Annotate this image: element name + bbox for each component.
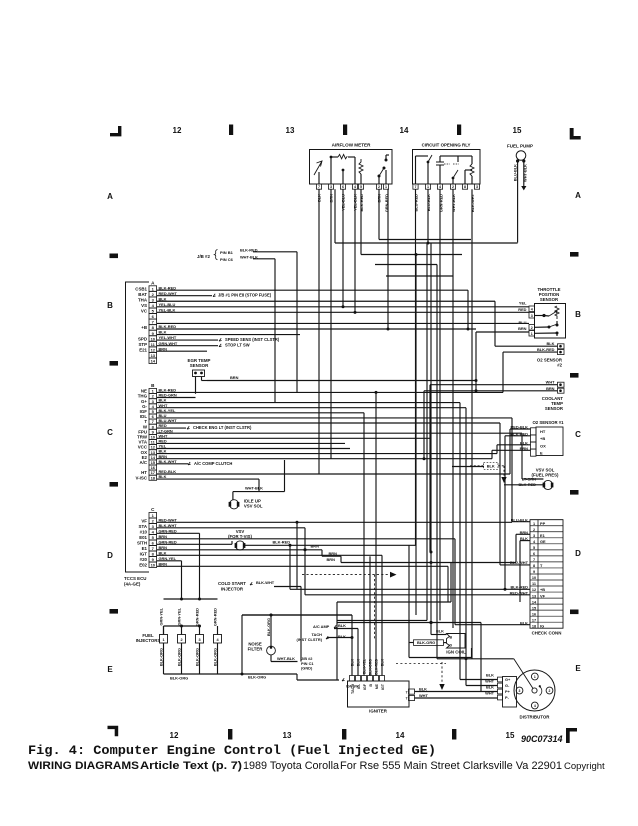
- circuit opening relay pin 3: [474, 184, 479, 189]
- svg-text:BRN: BRN: [518, 326, 527, 331]
- svg-text:BLU-RED: BLU-RED: [414, 194, 419, 212]
- svg-text:A/C COMP CLUTCH: A/C COMP CLUTCH: [194, 461, 232, 466]
- wire: [157, 412, 364, 414]
- ECU pin C3 (STA): [149, 524, 157, 530]
- distributor pin G+: [498, 677, 503, 682]
- throttle position sensor potentiometer: [555, 306, 559, 319]
- svg-text:BLU: BLU: [519, 320, 527, 325]
- check connector pin 17: [530, 615, 563, 617]
- check connector pin 7: [530, 555, 563, 557]
- svg-text:5: 5: [152, 535, 155, 540]
- wire: [497, 444, 531, 446]
- svg-text:A/C AMP: A/C AMP: [313, 624, 330, 629]
- ECU pin A10 (SPD): [149, 336, 157, 342]
- wire: [378, 189, 380, 239]
- airflow meter pin 4: [352, 184, 357, 189]
- distributor terminal 1: [531, 673, 538, 680]
- svg-text:15: 15: [513, 126, 522, 135]
- svg-text:18: 18: [532, 624, 536, 628]
- wire: [330, 189, 332, 459]
- wire: [157, 560, 182, 562]
- VSV for T-VIS solenoid: [235, 541, 244, 550]
- svg-text:CIRCUIT OPENING RLY: CIRCUIT OPENING RLY: [422, 143, 471, 148]
- check connector pin 3 (E1): [530, 531, 563, 533]
- wire: [157, 527, 305, 529]
- svg-text:1: 1: [385, 185, 387, 189]
- svg-text:4: 4: [534, 704, 536, 708]
- distributor terminal 4: [531, 702, 538, 709]
- wire: [232, 492, 234, 500]
- wire: [318, 189, 320, 474]
- svg-text:A/C: A/C: [139, 460, 147, 465]
- wire: [157, 345, 218, 347]
- wire: [454, 539, 456, 625]
- igniter pin 3 (IGF): [362, 676, 367, 682]
- svg-text:BLK-RED: BLK-RED: [359, 194, 364, 212]
- wire: [447, 566, 449, 602]
- wire: [157, 391, 503, 393]
- svg-text:16: 16: [532, 612, 536, 616]
- svg-text:4: 4: [439, 185, 441, 189]
- wire: [322, 555, 341, 557]
- O2 sensor #2 pins: [558, 344, 565, 349]
- check connector box: [530, 520, 563, 629]
- svg-text:+B: +B: [540, 436, 545, 441]
- svg-text:P+: P+: [505, 689, 511, 694]
- svg-text:12: 12: [170, 731, 179, 740]
- wire: [253, 251, 297, 253]
- svg-text:A: A: [151, 280, 155, 285]
- svg-text:BLK-RED: BLK-RED: [159, 324, 177, 329]
- wire: [511, 418, 513, 522]
- wire: [157, 417, 512, 419]
- wire: [334, 189, 336, 243]
- wire: [327, 637, 352, 639]
- wire: [452, 466, 484, 468]
- check connector pin 4 (GE): [530, 537, 563, 539]
- wire injector 3 top: [199, 626, 201, 635]
- tick mark top: [457, 125, 461, 136]
- wire injector 3 bottom: [199, 643, 201, 674]
- svg-text:BLK-ORG: BLK-ORG: [417, 640, 435, 645]
- svg-text:SENSOR: SENSOR: [540, 297, 559, 302]
- svg-text:BAT: BAT: [138, 292, 147, 297]
- wire: [334, 628, 358, 630]
- svg-text:GRN-RED: GRN-RED: [159, 539, 177, 544]
- throttle position sensor pin 2: [529, 325, 535, 331]
- svg-text:5: 5: [533, 546, 535, 550]
- ECU pin B9 (FPU): [149, 429, 157, 434]
- svg-text:SENSOR: SENSOR: [190, 363, 209, 368]
- svg-text:WHT: WHT: [546, 380, 555, 385]
- ECU pin A14: [149, 358, 157, 364]
- distributor rotor arm: [514, 659, 533, 689]
- svg-text:10: 10: [151, 563, 156, 568]
- svg-text:11: 11: [151, 342, 156, 347]
- airflow meter pin 5: [358, 184, 363, 189]
- igniter pin 2 (IG-): [356, 676, 361, 682]
- dashed line under coil: [396, 663, 446, 665]
- svg-text:4: 4: [152, 530, 155, 535]
- svg-text:1: 1: [162, 638, 164, 642]
- wire: [502, 352, 504, 392]
- ECU pin A4 (VS): [149, 302, 157, 308]
- svg-text:BLU-BLK: BLU-BLK: [426, 194, 431, 211]
- svg-text:7: 7: [152, 546, 155, 551]
- wire noise filter feed: [242, 614, 271, 616]
- svg-text:B: B: [151, 383, 155, 388]
- wire: [430, 384, 558, 386]
- svg-text:BLK: BLK: [486, 673, 494, 678]
- wire: [245, 544, 416, 546]
- svg-text:+B: +B: [540, 587, 545, 592]
- wire injector 2 top: [181, 626, 183, 635]
- distributor rotor center: [532, 688, 537, 693]
- svg-text:12: 12: [151, 347, 156, 352]
- wire: [274, 586, 301, 588]
- wire: [439, 189, 441, 620]
- wire: [467, 290, 469, 329]
- wire: [157, 554, 382, 556]
- airflow meter internal wiring: [330, 157, 332, 184]
- airflow meter pin 2: [376, 184, 381, 189]
- svg-text:INJECTOR: INJECTOR: [221, 587, 244, 592]
- wire: [290, 588, 530, 590]
- svg-text:VF: VF: [540, 593, 546, 598]
- svg-text:4: 4: [354, 185, 356, 189]
- ECU pin A7: [149, 319, 157, 325]
- ECU pin B10 (TRW): [149, 434, 157, 439]
- svg-text:#2: #2: [557, 363, 562, 368]
- wire: [157, 448, 350, 450]
- check connector pin 5: [530, 543, 563, 545]
- svg-text:BLK-RED: BLK-RED: [537, 347, 555, 352]
- wire: [430, 243, 432, 623]
- circuit opening relay box: [413, 150, 481, 185]
- svg-text:8: 8: [533, 564, 535, 568]
- fuel injector 4: [214, 635, 222, 644]
- wire: [336, 602, 338, 680]
- ECU pin B7 (T): [149, 419, 157, 424]
- check connector pin 2: [530, 525, 563, 527]
- A/C compressor clutch note: [188, 462, 191, 465]
- svg-text:2: 2: [533, 528, 535, 532]
- svg-text:3: 3: [533, 534, 535, 538]
- wire: [321, 550, 323, 556]
- svg-text:RED-WHT: RED-WHT: [159, 291, 178, 296]
- igniter pin 4 (B): [368, 676, 373, 682]
- svg-text:12: 12: [173, 126, 182, 135]
- svg-text:8: 8: [152, 552, 155, 557]
- wire: [351, 615, 353, 676]
- ECU pin C7 (E1): [149, 546, 157, 552]
- check engine light note: [187, 426, 190, 429]
- wire: [436, 265, 438, 659]
- svg-text:CHECK ENG LT (INST CLSTR): CHECK ENG LT (INST CLSTR): [193, 425, 252, 430]
- svg-text:PIN C6: PIN C6: [220, 257, 234, 262]
- ECU pin A9: [149, 330, 157, 336]
- svg-text:12: 12: [532, 588, 536, 592]
- wire: [157, 322, 529, 324]
- wire: [157, 407, 466, 409]
- distributor terminal 3: [516, 687, 523, 694]
- circuit opening relay pin 7: [413, 184, 418, 189]
- svg-text:15: 15: [506, 731, 515, 740]
- check connector pin 9: [530, 567, 563, 569]
- check connector pin 8 (T): [530, 561, 563, 563]
- wire: [427, 189, 429, 243]
- stop light switch note: [219, 344, 222, 347]
- idle up VSV solenoid: [229, 500, 238, 509]
- wire: [157, 565, 448, 567]
- wire: [426, 243, 428, 620]
- wire: [494, 301, 496, 346]
- svg-text:BLK: BLK: [159, 296, 167, 301]
- wire: [157, 521, 512, 523]
- airflow meter internal vane resistor: [314, 161, 322, 175]
- check connector pin 12 (+B): [530, 585, 563, 587]
- wire label BLK-ORG boxed: [414, 640, 444, 646]
- svg-text:8: 8: [464, 185, 466, 189]
- svg-text:YEL-BLK: YEL-BLK: [159, 307, 176, 312]
- svg-text:DISTRIBUTOR: DISTRIBUTOR: [520, 715, 551, 720]
- svg-text:13: 13: [286, 126, 295, 135]
- svg-text:FUEL PUMP: FUEL PUMP: [507, 144, 533, 149]
- wire: [452, 189, 454, 628]
- ECU pin B16: [149, 465, 157, 470]
- svg-text:17: 17: [532, 618, 536, 622]
- throttle position sensor pin 4: [529, 306, 535, 312]
- circuit opening relay pin 8: [462, 184, 467, 189]
- O2 sensor #1 pin 3 (OX): [531, 442, 537, 449]
- ECU pin C6 (S/TH): [149, 540, 157, 546]
- igniter pin 1 (TACH): [350, 676, 355, 682]
- svg-text:STP: STP: [138, 342, 147, 347]
- svg-text:BRN: BRN: [230, 375, 239, 380]
- tick mark top: [229, 125, 233, 136]
- svg-text:3: 3: [531, 314, 533, 318]
- wire: [284, 460, 286, 492]
- svg-text:BLK: BLK: [338, 634, 346, 639]
- wire: [519, 541, 521, 602]
- wire: [480, 623, 482, 692]
- svg-text:BLK: BLK: [159, 474, 167, 479]
- wire: [357, 629, 359, 676]
- svg-text:9: 9: [152, 557, 155, 562]
- ignition coil box: [447, 634, 466, 649]
- ECU pin C4 (#10): [149, 529, 157, 535]
- svg-text:13: 13: [283, 731, 292, 740]
- ECU pin A12 (E21): [149, 347, 157, 353]
- wire: [512, 521, 530, 523]
- svg-text:4: 4: [531, 307, 533, 311]
- wire: [164, 598, 218, 600]
- wire: [157, 397, 196, 399]
- svg-text:TCCS ECU: TCCS ECU: [124, 576, 146, 581]
- wire: [360, 189, 362, 254]
- svg-text:C: C: [575, 430, 581, 439]
- ECU pin A8 (+B): [149, 325, 157, 331]
- svg-text:90C07314: 90C07314: [521, 734, 563, 744]
- noise filter: [267, 646, 276, 655]
- ECU pin C8 (IGT): [149, 551, 157, 557]
- circuit opening relay pin 2: [450, 184, 455, 189]
- svg-text:1: 1: [427, 185, 429, 189]
- svg-text:YEL: YEL: [519, 301, 527, 306]
- corner mark bottom-right: [566, 728, 577, 743]
- wire: [305, 594, 530, 596]
- svg-text:BLK-ORG: BLK-ORG: [158, 648, 163, 666]
- wire: [459, 403, 461, 680]
- corner mark top-right: [570, 128, 581, 140]
- wire: [510, 428, 531, 430]
- svg-text:THA: THA: [138, 297, 148, 302]
- svg-text:(GND): (GND): [301, 666, 313, 671]
- wire: [379, 239, 471, 241]
- fuel injector 1: [160, 635, 168, 644]
- wire: [342, 189, 344, 307]
- tick mark right: [570, 373, 579, 378]
- svg-text:3: 3: [152, 524, 155, 529]
- svg-text:GRN-RED: GRN-RED: [194, 608, 199, 626]
- wire: [466, 685, 498, 687]
- wire: [363, 413, 365, 676]
- wire: [341, 562, 516, 564]
- distributor pin P-: [498, 695, 503, 700]
- svg-text:18: 18: [151, 475, 156, 480]
- distributor connector: [503, 677, 517, 708]
- svg-text:BLK-WHT: BLK-WHT: [159, 523, 178, 528]
- tick mark left: [110, 361, 119, 366]
- wire: [157, 532, 200, 534]
- distributor terminal 2: [546, 687, 553, 694]
- ECU pin B8 (W): [149, 424, 157, 429]
- svg-text:T: T: [540, 563, 543, 568]
- svg-text:14: 14: [532, 600, 537, 604]
- svg-text:BRN: BRN: [159, 561, 168, 566]
- wire: [500, 564, 530, 566]
- svg-text:SPD: SPD: [138, 336, 147, 341]
- svg-text:7: 7: [533, 558, 535, 562]
- ground fuel pump: [521, 186, 526, 190]
- svg-text:BLK: BLK: [351, 659, 355, 667]
- coolant temp sensor pins: [558, 382, 565, 387]
- igniter box: [348, 681, 410, 707]
- tick mark right: [570, 610, 579, 615]
- svg-text:2: 2: [549, 689, 551, 693]
- wire: [465, 408, 467, 686]
- svg-text:BLK-ORG: BLK-ORG: [369, 659, 373, 676]
- airflow meter box: [310, 150, 393, 185]
- throttle position sensor box: [535, 304, 566, 339]
- wire: [274, 259, 276, 403]
- wire fuel pump WHT-BLK: [523, 161, 525, 186]
- airflow meter pin 6: [340, 184, 345, 189]
- svg-text:(INST CLSTR): (INST CLSTR): [296, 637, 322, 642]
- svg-text:1: 1: [531, 332, 533, 336]
- wire: [296, 522, 298, 589]
- svg-text:SENSOR: SENSOR: [545, 406, 564, 411]
- tick mark bottom: [342, 729, 346, 740]
- svg-text:7: 7: [318, 185, 320, 189]
- wire: [207, 380, 476, 382]
- check connector pin 15: [530, 603, 563, 605]
- svg-text:GRN-RED: GRN-RED: [212, 608, 217, 626]
- wire: [476, 331, 529, 333]
- corner mark bottom-left: [108, 726, 119, 737]
- wire: [157, 543, 232, 545]
- svg-text:E: E: [575, 664, 581, 673]
- svg-text:PP: PP: [540, 521, 546, 526]
- svg-text:BLK-WHT: BLK-WHT: [470, 193, 475, 212]
- tick mark bottom: [228, 729, 232, 740]
- svg-text:10: 10: [151, 336, 156, 341]
- svg-text:BLU-BLK: BLU-BLK: [512, 164, 517, 181]
- svg-text:IGT: IGT: [140, 552, 148, 557]
- svg-text:14: 14: [151, 359, 156, 364]
- svg-text:11: 11: [532, 582, 536, 586]
- wire coil D loop: [409, 642, 414, 644]
- circuit opening relay resistor: [471, 176, 473, 184]
- svg-text:G-: G-: [505, 683, 510, 688]
- dashed wire BLK stub: [470, 466, 504, 477]
- svg-text:VSV SOL: VSV SOL: [244, 504, 263, 509]
- svg-text:BLK-RED: BLK-RED: [159, 285, 177, 290]
- wire: [460, 679, 498, 681]
- svg-text:3: 3: [330, 185, 332, 189]
- svg-text:BLK-ORG: BLK-ORG: [176, 648, 181, 666]
- svg-text:BLK: BLK: [381, 659, 385, 667]
- wire: [157, 306, 529, 308]
- svg-text:D: D: [575, 549, 581, 558]
- svg-text:WHT-BLK: WHT-BLK: [245, 485, 263, 490]
- svg-text:4: 4: [216, 638, 219, 642]
- ECU pin B17 (HT): [149, 470, 157, 475]
- wire: [157, 432, 522, 434]
- wire: [157, 478, 259, 480]
- svg-text:WHT: WHT: [419, 693, 428, 698]
- distributor rotation arrow: [540, 687, 542, 696]
- dashed wire vertical center: [374, 575, 376, 640]
- svg-text:4: 4: [152, 303, 155, 308]
- svg-text:6: 6: [152, 314, 155, 319]
- wire: [304, 528, 306, 595]
- svg-text:9: 9: [152, 331, 155, 336]
- wire: [157, 453, 497, 455]
- svg-text:3: 3: [519, 689, 521, 693]
- svg-text:O2 SENSOR #1: O2 SENSOR #1: [532, 420, 564, 425]
- wire: [157, 334, 300, 336]
- svg-text:4: 4: [533, 540, 536, 544]
- wire: [181, 561, 183, 599]
- svg-text:D: D: [450, 644, 453, 648]
- wire: [157, 339, 218, 341]
- dashed wire to T-VIS arrow: [302, 574, 390, 576]
- check connector pin 10: [530, 573, 563, 575]
- ECU pin B11 (VTA): [149, 440, 157, 445]
- svg-text:2: 2: [152, 519, 155, 524]
- svg-text:BRN: BRN: [159, 534, 168, 539]
- wire: [157, 473, 510, 475]
- throttle position sensor pin 1: [529, 331, 535, 337]
- O2 sensor #1 pin 1 (HT): [531, 428, 537, 435]
- svg-text:BLK: BLK: [159, 330, 167, 335]
- wire: [233, 491, 285, 493]
- ECU pin B1 (NE): [149, 389, 157, 394]
- wire: [157, 402, 460, 404]
- wire: [386, 275, 453, 277]
- wire: [475, 332, 477, 391]
